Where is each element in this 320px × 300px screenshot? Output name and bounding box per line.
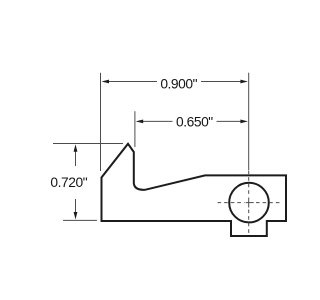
svg-text:0.650": 0.650": [176, 115, 213, 130]
extension line left (0.900): [100, 73, 102, 171]
vertical centerline lower: [248, 210, 250, 234]
svg-text:0.900": 0.900": [160, 77, 197, 92]
extension line bottom (0.720): [63, 219, 97, 221]
hole circle: [229, 183, 269, 223]
dimension line 0.720 (vertical, two shafts): [75, 151, 77, 214]
horizontal centerline center cross: [246, 202, 254, 204]
vertical centerline (dash-dot) upper: [248, 171, 250, 197]
arrow 0.720 up: [74, 144, 78, 152]
arrow 0.650 left: [136, 120, 144, 124]
dimension line 0.650: [142, 120, 242, 122]
part outline: [102, 144, 287, 236]
extension line right (shared, hole centerline solid part): [248, 73, 250, 170]
svg-text:0.720": 0.720": [50, 175, 87, 190]
horizontal centerline right: [256, 202, 281, 204]
extension line left (0.650): [134, 111, 136, 147]
arrow 0.650 right: [240, 120, 248, 124]
vertical centerline center cross: [248, 198, 250, 208]
dimension line 0.900: [108, 81, 242, 83]
extension line top (0.720): [53, 143, 123, 145]
arrow 0.900 right: [240, 80, 248, 84]
arrow 0.900 left: [102, 80, 110, 84]
horizontal centerline (dash-dot) left: [218, 202, 245, 204]
arrow 0.720 down: [74, 212, 78, 220]
